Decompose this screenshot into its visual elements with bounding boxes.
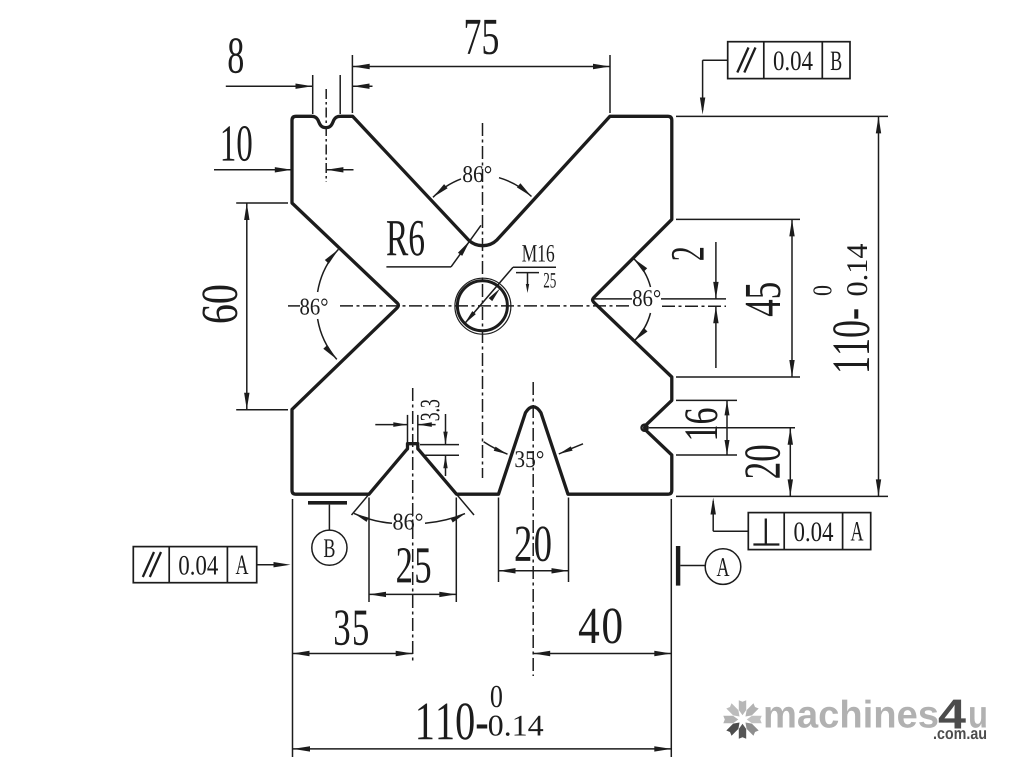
dimension 20 extension lines [498, 498, 500, 583]
dimension 75 extension lines [351, 55, 353, 113]
dimension 8 [226, 85, 313, 87]
dimension 20 right [789, 428, 791, 497]
horizontal center line [288, 305, 300, 307]
16 notch extension lines [676, 399, 737, 401]
leader of frame B [703, 59, 728, 61]
machines4u logo text [766, 700, 938, 728]
feature control frame parallel 0.04 A [133, 547, 256, 583]
dimension 25 extension lines [368, 498, 370, 603]
top edge extension line right [676, 115, 888, 117]
dimension 2 [715, 242, 717, 299]
dimension 20 bottom [499, 570, 569, 572]
leader R6 [386, 266, 451, 268]
dimension 16 [726, 400, 728, 455]
dimension 60 extension lines [236, 202, 288, 204]
dimension 40 [533, 653, 671, 655]
bottom edge extension line right [676, 495, 888, 497]
leader of frame perp A [713, 530, 748, 532]
top notch center line [325, 89, 327, 182]
dimension 45 extension lines [676, 218, 800, 220]
hole M16 outer thread circle [455, 278, 511, 334]
right V vertex level line [592, 298, 632, 300]
angle 86 deg top V arc [433, 179, 461, 197]
datum B symbol [308, 501, 347, 505]
label M16 with leader [464, 267, 513, 324]
datum A symbol [676, 546, 680, 586]
small V slope extensions [352, 494, 370, 515]
dimension 3.3 slot width [375, 424, 407, 426]
narrow notch center line [532, 382, 534, 676]
dimension 35 [293, 653, 413, 655]
angle 86 deg left V arc [318, 249, 339, 292]
slot extension lines [407, 415, 409, 443]
angle 35 deg arcs [484, 442, 508, 454]
machines4u logo icon [723, 700, 761, 738]
die block outline [292, 116, 672, 494]
dimension 110 -0.14 right [878, 116, 880, 496]
slot depth lines [420, 444, 459, 446]
dimension 10 [214, 169, 292, 171]
bottom small V center line [412, 388, 414, 664]
dimension 75 [353, 66, 610, 68]
vertical center line [482, 123, 484, 478]
dimension 25 [369, 593, 456, 595]
feature control frame perpendicular 0.04 A [748, 513, 870, 550]
angle 86 deg right V arc [633, 258, 650, 287]
dimension 60 [246, 203, 248, 410]
dimension 45 [791, 219, 793, 377]
right edge extension line down [670, 499, 672, 757]
dimension 8 extension lines [312, 75, 314, 114]
feature control frame parallel 0.04 B [728, 42, 850, 79]
thread depth 25 symbol [516, 272, 539, 274]
left edge extension line down [292, 499, 294, 757]
angle 86 deg small V arc [354, 513, 392, 523]
slot depth arrows [445, 414, 447, 445]
dimension 110 -0.14 bottom [293, 748, 671, 750]
rounded vertex of right 16 notch [642, 425, 648, 431]
leader of frame parallel A [257, 564, 285, 566]
hole M16 bore circle [457, 281, 507, 331]
16 notch vertex level line [649, 427, 795, 429]
